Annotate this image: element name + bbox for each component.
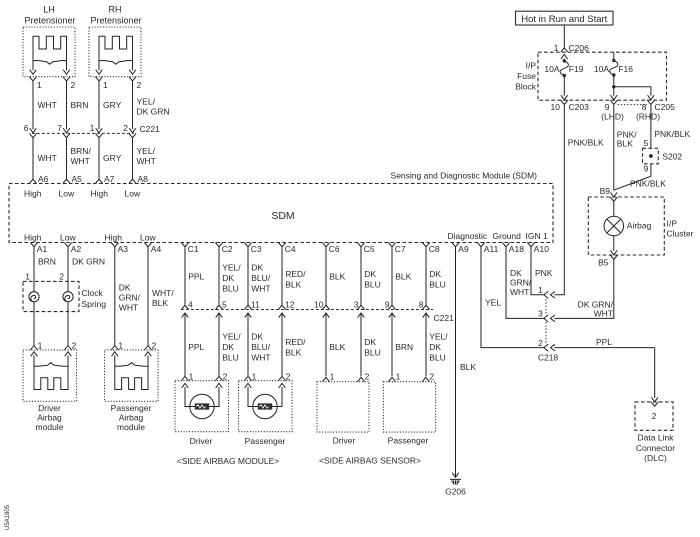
Hot in Run and Start box: [516, 11, 614, 25]
svg-text:2: 2: [137, 80, 142, 90]
svg-text:Low: Low: [59, 189, 75, 199]
svg-text:1: 1: [38, 341, 43, 351]
wire BRN C221 to module col x=392: [391, 313, 393, 376]
LH pretensioner pin2 arrow: [63, 70, 70, 75]
C218 pin1 arrow: [550, 292, 555, 299]
C221 pin 2 arrow: [129, 128, 136, 133]
SDM pin C8: [422, 243, 429, 247]
SDM pin A3: [111, 243, 118, 247]
svg-text:DK: DK: [429, 342, 441, 352]
C221 pin 7 socket: [63, 133, 70, 137]
C221 pin 9 socket: [388, 305, 395, 309]
wire GRY C221 to SDM A7: [98, 138, 100, 180]
svg-text:WHT: WHT: [594, 309, 613, 319]
SDM pin C1: [181, 243, 188, 247]
SDM pin A6: [29, 179, 36, 183]
svg-text:Hot in Run and Start: Hot in Run and Start: [521, 14, 607, 25]
svg-text:A9: A9: [458, 244, 469, 254]
fuse F19 element: [560, 61, 568, 76]
svg-text:2: 2: [72, 341, 77, 351]
SDM pin A2: [64, 243, 71, 247]
wire DK GRN/WHT SDM A3 to passenger airbag pin1: [114, 247, 116, 346]
svg-text:A11: A11: [484, 244, 499, 254]
SDM module box: [9, 184, 553, 243]
svg-text:C221: C221: [140, 124, 161, 134]
driver airbag module pin2 arrow: [65, 352, 72, 357]
svg-text:YEL: YEL: [485, 298, 501, 308]
svg-text:Airbag: Airbag: [627, 221, 652, 231]
wire PPL C218 pin2 to DLC: [554, 347, 654, 349]
svg-text:BRN: BRN: [71, 100, 89, 110]
LH pretensioner pin 2: [63, 77, 70, 81]
RH pretensioner pin2 arrow: [129, 70, 136, 75]
wire RED//BLK C221 to module col x=282: [281, 313, 283, 376]
C218 pin2 arrow: [550, 344, 555, 351]
svg-text:BRN: BRN: [38, 257, 56, 267]
passenger airbag module box: [105, 350, 159, 401]
svg-text:Diagnostic: Diagnostic: [448, 231, 488, 241]
wire BRN SDM A1 to clock spring: [33, 247, 35, 292]
svg-text:LH: LH: [43, 5, 55, 15]
svg-text:(LHD): (LHD): [601, 112, 624, 122]
C221 pin 1 arrow: [96, 128, 103, 133]
C221 pin 5 socket: [215, 305, 222, 309]
data link connector box: [635, 402, 673, 430]
svg-text:High: High: [91, 189, 109, 199]
wire DK GRN/WHT B5 to C218 pin3: [554, 259, 613, 318]
C221 pin 11 socket: [244, 305, 251, 309]
svg-text:Low: Low: [140, 233, 156, 243]
svg-text:module: module: [36, 422, 64, 432]
svg-text:module: module: [117, 422, 145, 432]
splice S202 box: [643, 148, 659, 164]
wire Hot box to C206: [563, 25, 565, 48]
SDM pin A1: [30, 243, 37, 247]
svg-text:BLU: BLU: [364, 348, 381, 358]
wire BLK C221 to module col x=326: [325, 313, 327, 376]
svg-text:U5A1805: U5A1805: [5, 504, 11, 530]
C221 pin 6 socket: [29, 133, 36, 137]
wire WHT LH pret pin1 to C221: [32, 81, 34, 129]
svg-text:A5: A5: [72, 174, 83, 184]
svg-text:2: 2: [152, 341, 157, 351]
svg-text:1: 1: [330, 371, 335, 381]
svg-text:RH: RH: [109, 5, 122, 15]
I/P cluster pin B5 arrow: [611, 250, 618, 255]
svg-text:DK: DK: [251, 332, 263, 342]
C221 pin 3 arrow: [358, 313, 365, 318]
svg-text:1: 1: [25, 272, 30, 282]
svg-text:1: 1: [538, 285, 543, 295]
svg-text:C218: C218: [538, 353, 559, 363]
driver side airbag module pin1 arrow: [182, 383, 189, 388]
svg-text:<SIDE AIRBAG SENSOR>: <SIDE AIRBAG SENSOR>: [319, 456, 421, 466]
svg-text:Low: Low: [60, 233, 76, 243]
svg-text:10: 10: [551, 102, 561, 112]
svg-text:A4: A4: [151, 244, 162, 254]
C221 pin 8 socket: [422, 305, 429, 309]
svg-text:BLK: BLK: [285, 348, 301, 358]
F16 bottom junction: [612, 73, 615, 76]
I/P cluster pin B9 arrow: [611, 192, 618, 197]
wire PNK/BLK C203 to C218 pin1: [554, 105, 564, 295]
svg-text:1: 1: [90, 123, 95, 133]
svg-text:YEL/: YEL/: [429, 332, 448, 342]
svg-text:GRY: GRY: [103, 153, 122, 163]
passenger airbag module squib element: [115, 366, 148, 390]
svg-text:F19: F19: [569, 64, 584, 74]
svg-text:Passenger: Passenger: [245, 436, 286, 446]
svg-text:YEL/: YEL/: [222, 332, 241, 342]
svg-text:2: 2: [538, 338, 543, 348]
svg-text:YEL/: YEL/: [137, 146, 156, 156]
wire PNK/BLK S202 to B9: [614, 164, 651, 190]
passenger airbag module pin2 arrow: [145, 352, 152, 357]
svg-text:A8: A8: [138, 174, 149, 184]
svg-text:Passenger: Passenger: [111, 403, 152, 413]
svg-text:WHT/: WHT/: [152, 288, 174, 298]
svg-text:Clock: Clock: [82, 288, 104, 298]
svg-text:RED/: RED/: [285, 269, 306, 279]
svg-text:1: 1: [37, 80, 42, 90]
junction F16 branch: [612, 85, 615, 88]
svg-text:Driver: Driver: [333, 436, 356, 446]
wire BLK SDM to C221 col x=392: [391, 247, 393, 305]
svg-text:DK: DK: [222, 342, 234, 352]
svg-text:YEL/: YEL/: [222, 263, 241, 273]
svg-text:9: 9: [605, 102, 610, 112]
driver side airbag module squib circle: [190, 394, 214, 418]
svg-text:PNK: PNK: [535, 268, 553, 278]
svg-text:I/P: I/P: [526, 61, 537, 71]
svg-text:GRN/: GRN/: [119, 293, 141, 303]
C203 pin arrow: [561, 95, 568, 100]
svg-text:DK: DK: [119, 283, 131, 293]
wire GRY RH pret pin1 to C221: [98, 81, 100, 129]
wire YEL/DK GRN RH pret pin2 to C221: [132, 81, 134, 129]
svg-text:BLU: BLU: [429, 280, 446, 290]
svg-text:A2: A2: [71, 244, 82, 254]
passenger airbag module pin1 arrow: [112, 352, 119, 357]
svg-text:A6: A6: [38, 174, 49, 184]
svg-text:C206: C206: [569, 43, 590, 53]
svg-text:F16: F16: [618, 64, 633, 74]
driver side airbag module pin 2: [215, 376, 222, 380]
fuse block pin 8 arrow: [648, 95, 655, 100]
passenger airbag module pin 1: [111, 346, 118, 350]
wire YEL/WHT C221 to SDM A8: [132, 138, 134, 180]
svg-text:WHT: WHT: [71, 156, 90, 166]
svg-text:2: 2: [286, 371, 291, 381]
LH pretensioner pin1 arrow: [30, 70, 37, 75]
passenger airbag module pin 2: [144, 346, 151, 350]
wire YEL//DK/BLU C221 to module col x=219: [218, 313, 220, 376]
passenger side airbag sensor pin 2: [422, 377, 429, 381]
svg-text:Low: Low: [125, 189, 141, 199]
svg-text:9: 9: [644, 164, 649, 174]
svg-text:Passenger: Passenger: [388, 436, 429, 446]
svg-text:12: 12: [285, 299, 295, 309]
svg-text:C7: C7: [395, 244, 406, 254]
SDM pin A11: [477, 243, 484, 247]
svg-text:A1: A1: [37, 244, 48, 254]
clock spring box: [23, 281, 79, 311]
svg-text:BLU: BLU: [364, 280, 381, 290]
svg-text:C5: C5: [364, 244, 375, 254]
svg-text:High: High: [24, 189, 42, 199]
svg-text:Driver: Driver: [190, 436, 213, 446]
SDM pin A10: [527, 243, 534, 247]
svg-text:4: 4: [188, 299, 193, 309]
svg-text:2: 2: [365, 371, 370, 381]
wire DK/BLU C221 to module col x=361: [360, 313, 362, 376]
wire PPL SDM to C221 col x=185: [184, 247, 186, 305]
svg-text:WHT: WHT: [119, 303, 138, 313]
wire YEL SDM A11 to C218 pin2: [481, 247, 544, 348]
LH pretensioner gas generator brace: [33, 60, 67, 64]
SDM pin A8: [129, 179, 136, 183]
C218 pin3 arrow: [550, 315, 555, 322]
svg-text:5: 5: [222, 299, 227, 309]
DLC pin 2 arrow: [651, 397, 658, 402]
svg-text:6: 6: [24, 123, 29, 133]
svg-text:10: 10: [314, 299, 324, 309]
svg-text:Cluster: Cluster: [667, 229, 694, 239]
wire PPL C221 to module col x=185: [184, 313, 186, 376]
C221 pin 12 arrow: [279, 313, 286, 318]
C221 pin 4 arrow: [182, 313, 189, 318]
fuse block pin 9 arrow: [611, 95, 618, 100]
I/P cluster pin B9 socket: [610, 197, 617, 201]
wire DK GRN/WHT SDM A18 to C218 pin3: [506, 247, 544, 319]
svg-text:C6: C6: [329, 244, 340, 254]
svg-text:WHT: WHT: [251, 353, 270, 363]
connector C206 socket: [561, 48, 568, 52]
svg-text:WHT: WHT: [38, 100, 57, 110]
wire RED//BLK SDM to C221 col x=282: [281, 247, 283, 305]
C218 pin 3 socket: [544, 315, 548, 322]
svg-text:PPL: PPL: [188, 342, 204, 352]
svg-text:BLK: BLK: [152, 298, 168, 308]
C221 pin 8 arrow: [423, 313, 430, 318]
driver side airbag module squib wires: [185, 387, 195, 407]
C221 pin 3 socket: [357, 305, 364, 309]
svg-text:A18: A18: [509, 244, 524, 254]
driver airbag module pin 2: [64, 346, 71, 350]
wire DK/BLU SDM to C221 col x=426: [425, 247, 427, 305]
svg-text:DK GRN: DK GRN: [137, 107, 170, 117]
passenger side airbag sensor box: [383, 382, 435, 432]
svg-text:PPL: PPL: [596, 337, 612, 347]
C221 pin 7 arrow: [63, 128, 70, 133]
svg-text:BLU/: BLU/: [251, 342, 271, 352]
wire PPL down to DLC: [654, 348, 656, 398]
svg-text:10A: 10A: [594, 64, 609, 74]
LH pretensioner: [23, 27, 75, 77]
wire F19 feed: [563, 59, 565, 62]
RH pretensioner pin 2: [129, 77, 136, 81]
svg-text:BLK: BLK: [285, 280, 301, 290]
wire PNK SDM A10 to C218 pin1: [531, 247, 544, 295]
wire BRN/WHT C221 to SDM A5: [66, 138, 68, 180]
svg-text:B5: B5: [598, 258, 609, 268]
wire clock spring to driver airbag pin1: [33, 302, 35, 346]
fuse F16 element: [610, 61, 618, 76]
SDM pin C3: [244, 243, 251, 247]
passenger side airbag module squib igniter: [258, 403, 272, 409]
svg-text:Pretensioner: Pretensioner: [24, 16, 75, 26]
svg-text:Sensing and Diagnostic Module: Sensing and Diagnostic Module (SDM): [391, 171, 538, 181]
driver airbag module gas generator brace: [34, 363, 68, 367]
SDM pin A9: [452, 243, 459, 247]
svg-text:BLU/: BLU/: [251, 273, 271, 283]
driver side airbag module squib igniter: [195, 403, 209, 409]
wire PNK/BLK pin9 to B9: [613, 105, 615, 191]
LH pretensioner pin 1: [29, 77, 36, 81]
SDM pin A4: [144, 243, 151, 247]
wire BRN LH pret pin2 to C221: [66, 81, 68, 129]
RH pretensioner: [89, 27, 141, 77]
wire BLK SDM to C221 col x=326: [325, 247, 327, 305]
svg-text:Data Link: Data Link: [638, 433, 675, 443]
F16 top junction: [612, 59, 615, 62]
svg-text:2: 2: [223, 371, 228, 381]
connector C203 socket: [561, 100, 568, 104]
C221 pin 2 socket: [129, 133, 136, 137]
svg-text:C3: C3: [251, 244, 262, 254]
svg-text:2: 2: [123, 123, 128, 133]
SDM pin C2: [215, 243, 222, 247]
svg-text:SDM: SDM: [271, 210, 294, 222]
wire DK GRN SDM A2 to clock spring: [67, 247, 69, 292]
svg-text:WHT: WHT: [251, 284, 270, 294]
SDM pin C7: [388, 243, 395, 247]
wire F19 to C203: [563, 76, 565, 96]
passenger side airbag sensor pin 1: [388, 377, 395, 381]
svg-text:11: 11: [251, 299, 260, 309]
svg-text:3: 3: [538, 309, 543, 319]
svg-text:Airbag: Airbag: [37, 413, 62, 423]
wire DK/BLU//WHT SDM to C221 col x=248: [247, 247, 249, 305]
svg-text:IGN 1: IGN 1: [526, 231, 548, 241]
svg-text:BLU: BLU: [429, 353, 446, 363]
passenger side airbag module pin 1: [244, 376, 251, 380]
driver side airbag sensor pin 1: [322, 377, 329, 381]
fuse F19 top arrow: [561, 54, 568, 59]
driver side airbag sensor box: [317, 382, 369, 432]
svg-text:A3: A3: [118, 244, 129, 254]
svg-text:C1: C1: [188, 244, 199, 254]
svg-text:BLK: BLK: [329, 272, 345, 282]
passenger side airbag module squib circle: [253, 394, 277, 418]
driver airbag module box: [23, 350, 77, 401]
connector pin 9 socket: [610, 100, 617, 104]
C218 pin 1 socket: [544, 291, 548, 298]
wire BLK SDM A9 to G206: [455, 247, 457, 477]
svg-text:Driver: Driver: [38, 403, 61, 413]
svg-text:High: High: [24, 233, 42, 243]
svg-text:1: 1: [118, 341, 123, 351]
svg-text:BLU: BLU: [222, 284, 239, 294]
wire F16 branch to pin 8: [614, 87, 651, 96]
I/P cluster pin B5 socket: [610, 255, 617, 259]
svg-text:DK: DK: [364, 337, 376, 347]
svg-text:1: 1: [554, 43, 559, 53]
svg-text:Pretensioner: Pretensioner: [90, 16, 141, 26]
svg-text:BLK: BLK: [617, 139, 633, 149]
LH pretensioner squib element: [33, 36, 67, 70]
RH pretensioner gas generator brace: [99, 60, 133, 64]
C221 pin 10 socket: [322, 305, 329, 309]
svg-text:RED/: RED/: [285, 337, 306, 347]
svg-text:(RHD): (RHD): [636, 112, 660, 122]
wire F16 down: [613, 75, 615, 96]
svg-text:PNK/BLK: PNK/BLK: [654, 129, 690, 139]
svg-text:DK: DK: [429, 269, 441, 279]
svg-text:(DLC): (DLC): [644, 453, 667, 463]
wire PNK/BLK pin8 to S202: [650, 105, 652, 149]
svg-text:BLK: BLK: [395, 272, 411, 282]
driver side airbag sensor pin 2: [357, 377, 364, 381]
driver side airbag module pin 1: [181, 376, 188, 380]
svg-text:WHT: WHT: [38, 153, 57, 163]
svg-text:BRN/: BRN/: [71, 146, 92, 156]
svg-text:C221: C221: [434, 313, 455, 323]
connector C205 socket: [647, 100, 654, 104]
svg-text:DK GRN: DK GRN: [72, 257, 105, 267]
connector link pin9-pin8: [618, 104, 648, 106]
svg-text:Ground: Ground: [493, 231, 522, 241]
driver airbag module pin1 arrow: [31, 352, 38, 357]
svg-text:BLK: BLK: [460, 362, 476, 372]
C221 pin 6 arrow: [30, 128, 37, 133]
C221 pin 12 socket: [278, 305, 285, 309]
wire DK/BLU//WHT C221 to module col x=248: [247, 313, 249, 376]
svg-text:PNK/BLK: PNK/BLK: [568, 138, 604, 148]
C221 pin 10 arrow: [323, 313, 330, 318]
svg-text:I/P: I/P: [667, 219, 678, 229]
svg-text:1: 1: [189, 371, 194, 381]
SDM pin A18: [502, 243, 509, 247]
svg-text:DK: DK: [222, 273, 234, 283]
wire YEL//DK/BLU C221 to module col x=426: [425, 313, 427, 376]
driver side airbag module pin2 arrow: [216, 383, 223, 388]
wire F16 feed: [613, 52, 615, 60]
svg-text:2: 2: [429, 371, 434, 381]
SDM pin C6: [322, 243, 329, 247]
svg-text:2: 2: [71, 80, 76, 90]
svg-text:YEL/: YEL/: [137, 97, 156, 107]
SDM pin C4: [278, 243, 285, 247]
driver airbag module pin 1: [30, 346, 37, 350]
C221 pin 11 arrow: [245, 313, 252, 318]
connector C221 (upper): [32, 132, 134, 134]
C221 pin 9 arrow: [389, 313, 396, 318]
svg-text:DK: DK: [364, 269, 376, 279]
passenger side airbag module pin1 arrow: [245, 383, 252, 388]
svg-text:8: 8: [419, 299, 424, 309]
driver side airbag module box: [175, 381, 229, 432]
svg-text:BLK: BLK: [329, 342, 345, 352]
ground G206 symbol: [450, 479, 461, 484]
svg-text:GRY: GRY: [103, 100, 122, 110]
svg-text:Spring: Spring: [82, 299, 107, 309]
passenger side airbag module pin 2: [278, 376, 285, 380]
svg-text:C205: C205: [655, 102, 676, 112]
svg-text:<SIDE AIRBAG MODULE>: <SIDE AIRBAG MODULE>: [177, 456, 280, 466]
svg-text:BRN: BRN: [395, 342, 413, 352]
SDM pin C5: [357, 243, 364, 247]
